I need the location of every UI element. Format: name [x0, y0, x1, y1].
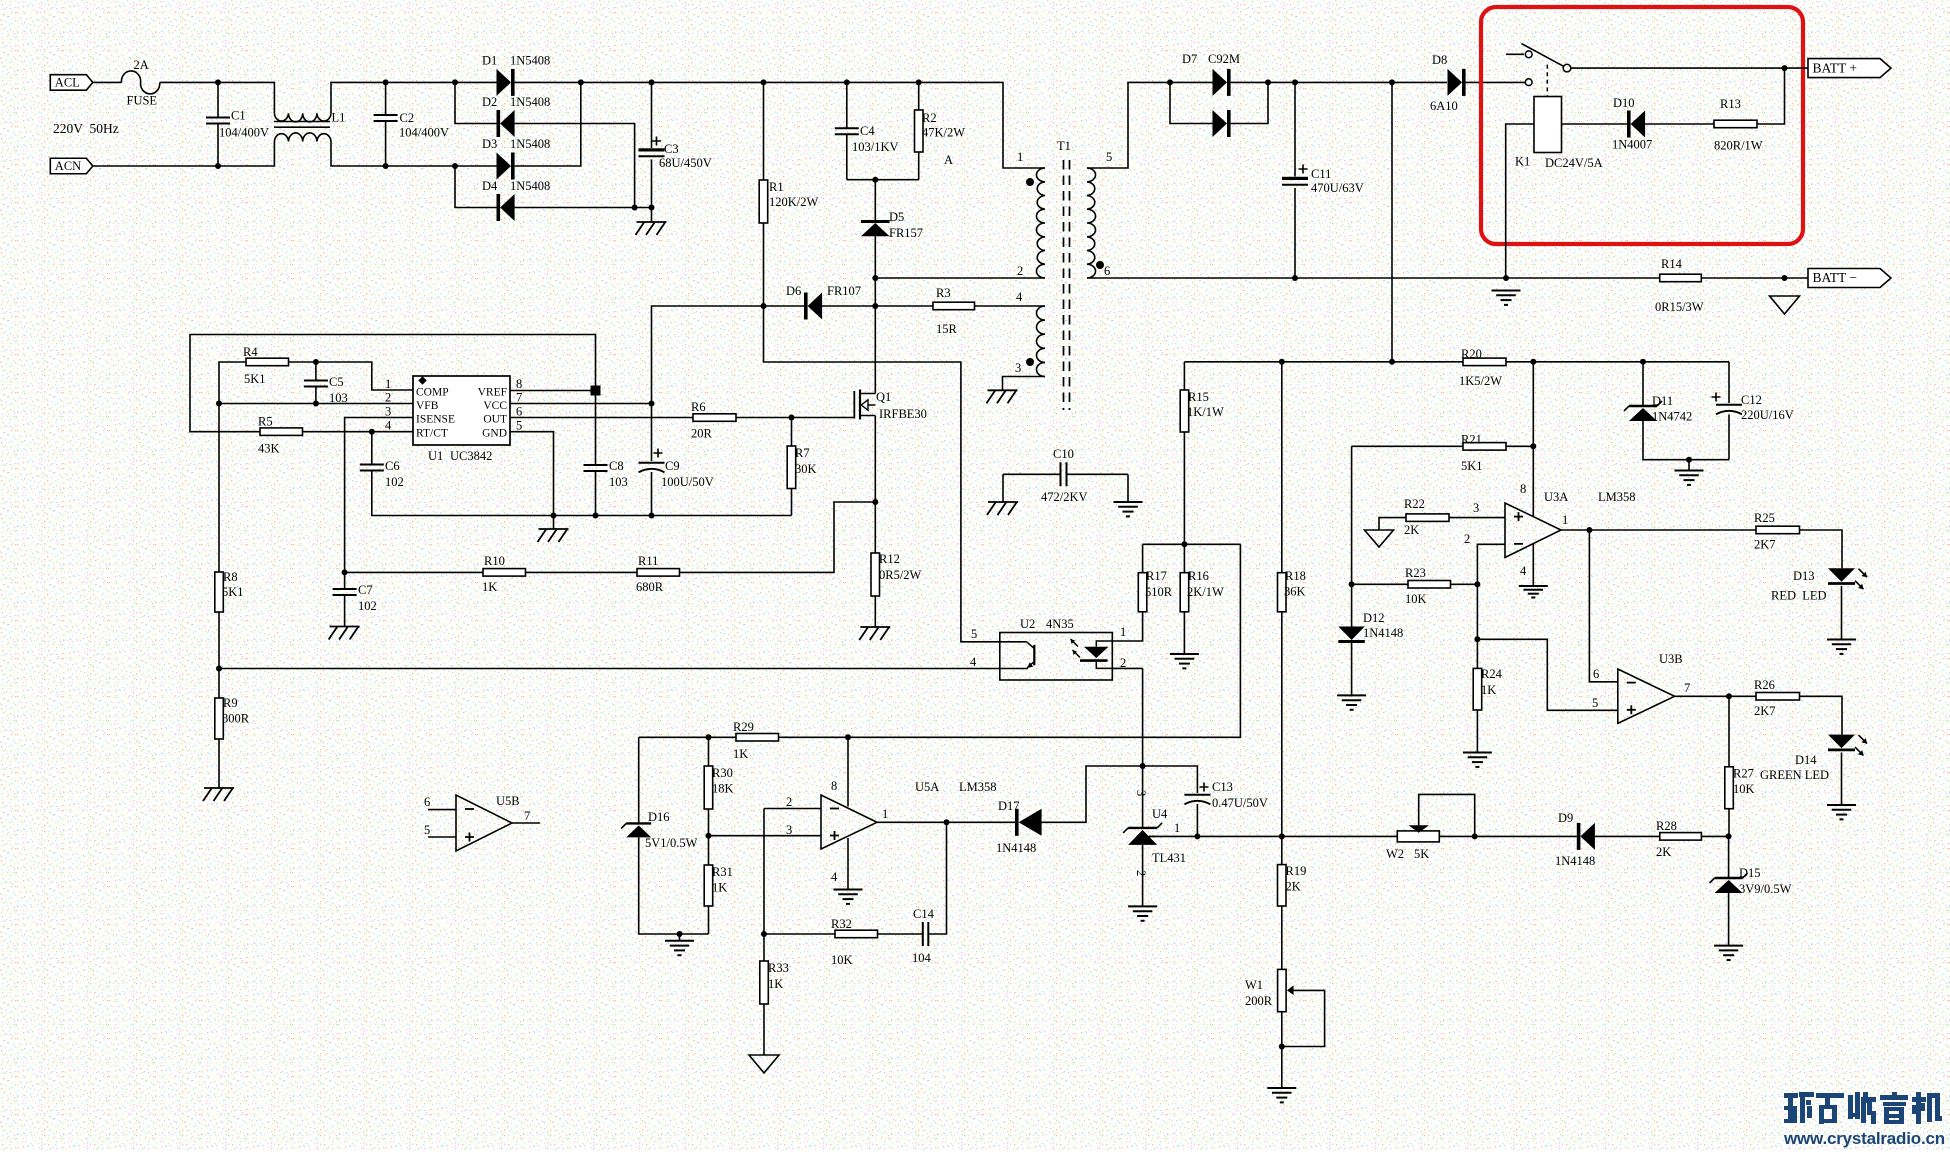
wire pin4 U5A lead	[847, 838, 849, 890]
capacitor C4	[835, 128, 859, 134]
junction C4 top	[844, 79, 850, 85]
svg-text:6: 6	[1104, 264, 1110, 278]
svg-text:6: 6	[424, 795, 430, 809]
svg-text:ACN: ACN	[55, 159, 81, 173]
wire C5 bottom lead	[315, 387, 317, 404]
junction W1 bottom	[1279, 1044, 1285, 1050]
svg-text:2: 2	[786, 795, 792, 809]
svg-text:104: 104	[912, 951, 932, 965]
svg-text:C11: C11	[1311, 167, 1331, 181]
junction R2 top	[916, 79, 922, 85]
wire R16 top lead	[1183, 544, 1185, 572]
wire R13 to BATT+ node	[1757, 68, 1785, 124]
svg-text:2K: 2K	[1286, 880, 1301, 894]
svg-text:D13: D13	[1793, 569, 1815, 583]
inductor L1 top winding	[274, 113, 331, 122]
resistor R26 2K7	[1756, 693, 1800, 701]
wire pin5 GND	[510, 432, 554, 516]
svg-text:3: 3	[1134, 790, 1148, 796]
potentiometer W2 5K body	[1397, 831, 1439, 842]
svg-text:1K: 1K	[712, 881, 727, 895]
wire D15 bottom lead	[1728, 893, 1730, 946]
svg-text:R23: R23	[1405, 566, 1426, 580]
resistor R29 1K	[736, 734, 779, 742]
wire R25 to D13	[1800, 530, 1843, 568]
junction ground rail	[1503, 275, 1509, 281]
svg-text:2K: 2K	[1656, 845, 1671, 859]
junction R18 R19 node	[1279, 833, 1285, 839]
svg-text:4N35: 4N35	[1046, 617, 1074, 631]
svg-text:4: 4	[1016, 290, 1023, 304]
wire pin5 U5B stub	[428, 836, 456, 838]
svg-text:200R: 200R	[1245, 994, 1273, 1008]
wire C6 top lead	[371, 432, 373, 464]
capacitor C11 electrolytic	[1282, 177, 1308, 180]
wire C4 R2 bottom link	[847, 179, 919, 181]
svg-text:C92M: C92M	[1208, 52, 1240, 66]
resistor R11 680R	[637, 569, 680, 577]
wire D4 anode to ground rail	[515, 207, 652, 209]
junction pin2 drain	[872, 275, 878, 281]
junction D3 cathode rail	[578, 79, 584, 85]
svg-text:GND: GND	[482, 428, 507, 440]
wire C2 upper lead	[385, 82, 387, 114]
wire U4 ref lead	[1149, 835, 1155, 837]
wire U3B output	[1675, 695, 1756, 697]
svg-text:510R: 510R	[1145, 585, 1173, 599]
transformer T1 core	[1064, 160, 1070, 410]
junction C2 bottom	[383, 163, 389, 169]
wire C4 lower lead	[846, 135, 848, 180]
resistor R16 2K/1W	[1180, 573, 1189, 612]
op-amp U5B	[456, 795, 512, 851]
svg-text:R10: R10	[484, 554, 505, 568]
wire R6 to gate	[736, 391, 854, 418]
svg-text:R31: R31	[712, 865, 733, 879]
svg-text:VFB: VFB	[416, 400, 439, 412]
diode D7a C92M	[1213, 69, 1228, 96]
svg-text:R22: R22	[1404, 497, 1425, 511]
plus sign C11	[1299, 165, 1308, 174]
resistor R28 2K	[1660, 833, 1702, 841]
wire D14 cathode lead	[1841, 753, 1843, 806]
wire to U3B pin5	[1477, 639, 1617, 710]
svg-text:RED LED: RED LED	[1771, 589, 1827, 603]
svg-text:R13: R13	[1720, 97, 1741, 111]
wire secondary pin6 rail	[1087, 277, 1506, 279]
junction R21 vert top	[1530, 359, 1536, 365]
wire R29 right	[779, 736, 849, 738]
svg-text:U4: U4	[1152, 807, 1168, 821]
wire R2 lower lead	[918, 152, 920, 180]
svg-text:4: 4	[385, 419, 392, 433]
relay contact NO circle	[1525, 51, 1532, 58]
capacitor C14 104	[923, 922, 929, 946]
wire ground stub	[1688, 460, 1690, 471]
svg-text:4: 4	[831, 870, 838, 884]
wire R3 to pin4	[975, 305, 1046, 307]
wire D6 node to VCC	[652, 306, 764, 404]
svg-text:U3B: U3B	[1659, 652, 1683, 666]
terminal ACL	[50, 75, 93, 91]
capacitor C7	[333, 589, 357, 595]
svg-text:3: 3	[1015, 361, 1021, 375]
svg-text:5: 5	[424, 823, 430, 837]
wire L1 bottom to bridge	[331, 142, 497, 167]
wire D8 node down to R20	[1391, 82, 1393, 361]
ground R12	[860, 626, 890, 628]
wire C13 bottom lead	[1196, 804, 1198, 836]
wire D11 top lead	[1642, 362, 1644, 406]
diode D6 FR107	[808, 293, 823, 320]
svg-text:C7: C7	[358, 583, 373, 597]
junction bridge bottom left	[452, 163, 458, 169]
wire opto pin2 out	[1112, 667, 1142, 669]
svg-text:1: 1	[1017, 150, 1023, 164]
svg-text:1N4742: 1N4742	[1652, 410, 1692, 424]
transistor Q1 IRFBE30	[853, 391, 855, 419]
wire opto pin4 long rail	[219, 668, 1028, 670]
wire U4 cathode lead	[1142, 766, 1144, 827]
junction D7 left	[1167, 79, 1173, 85]
svg-text:R29: R29	[733, 720, 754, 734]
wire aux pin3 to ground	[1003, 377, 1046, 391]
wire VREF loop	[190, 335, 596, 432]
wire R1 upper lead	[763, 82, 765, 180]
plus sign C12	[1712, 393, 1721, 402]
junction pin2 R23 node	[1474, 581, 1480, 587]
op-amp U5A LM358	[821, 795, 877, 849]
wire W2 wiper link	[1419, 794, 1475, 836]
svg-text:C6: C6	[385, 459, 400, 473]
wire C10 right ground lead	[1127, 474, 1129, 502]
wire R12 top lead	[874, 502, 876, 553]
wire primary bottom to drain	[875, 277, 1045, 279]
wire pin4 vert	[1532, 544, 1534, 585]
svg-text:1N5408: 1N5408	[510, 179, 550, 193]
svg-text:1K: 1K	[482, 580, 497, 594]
wire aux supply to opto pin5	[764, 306, 1027, 642]
wire D7 bottom branch	[1170, 82, 1213, 123]
svg-text:1N5408: 1N5408	[510, 54, 550, 68]
svg-text:K1: K1	[1515, 155, 1530, 169]
wire Q1 source down	[874, 416, 876, 503]
wire U3A output	[1561, 529, 1756, 531]
svg-text:TL431: TL431	[1152, 851, 1186, 865]
svg-text:U3A: U3A	[1544, 490, 1568, 504]
svg-text:R19: R19	[1286, 864, 1307, 878]
svg-text:R3: R3	[936, 286, 951, 300]
diode D3 1N5408	[497, 153, 512, 180]
svg-text:R8: R8	[223, 570, 238, 584]
junction R21 R23 D12	[1349, 581, 1355, 587]
capacitor C8	[584, 465, 608, 471]
svg-text:R15: R15	[1188, 390, 1209, 404]
resistor R12 0R5/2W	[871, 553, 880, 596]
wire C14 to output	[929, 822, 947, 934]
plus sign C9	[654, 449, 663, 458]
svg-text:0.47U/50V: 0.47U/50V	[1212, 796, 1268, 810]
wire D6 to R3 node	[822, 305, 875, 307]
svg-text:D3: D3	[482, 137, 497, 151]
svg-text:2: 2	[1464, 532, 1470, 546]
ground U5A pin4	[834, 889, 863, 891]
resistor R27 10K	[1725, 767, 1734, 809]
junction pin3 U5A node	[706, 833, 712, 839]
wire R14 to BATT-	[1701, 277, 1808, 279]
potentiometer W1 200R body	[1278, 969, 1287, 1011]
wire header to R29 row	[848, 544, 1240, 737]
junction VFB C5	[313, 401, 319, 407]
svg-text:R28: R28	[1656, 819, 1677, 833]
svg-text:LM358: LM358	[1598, 490, 1636, 504]
phototransistor U2	[1033, 645, 1035, 665]
svg-text:472/2KV: 472/2KV	[1041, 490, 1088, 504]
svg-text:7: 7	[516, 391, 522, 405]
wire R15 top lead	[1183, 362, 1185, 390]
resistor R4 5K1	[246, 358, 289, 366]
svg-text:C10: C10	[1053, 447, 1074, 461]
wire D7 to D8	[1268, 81, 1447, 83]
wire R15 bottom lead	[1183, 432, 1185, 544]
svg-text:2K7: 2K7	[1754, 538, 1776, 552]
junction C11 top	[1292, 79, 1298, 85]
wire pin3 ISENSE	[345, 418, 413, 573]
junction VCC C9	[649, 401, 655, 407]
wire C6 bottom lead	[372, 471, 554, 516]
wire R16 bottom lead	[1183, 612, 1185, 654]
svg-text:R7: R7	[795, 446, 810, 460]
capacitor C2	[374, 115, 398, 121]
svg-text:R16: R16	[1188, 569, 1209, 583]
zener D15 3V9/0.5W	[1715, 877, 1743, 879]
wire D7 top anode	[1170, 81, 1213, 83]
phase dot secondary	[1096, 261, 1104, 269]
svg-text:100U/50V: 100U/50V	[661, 475, 714, 489]
svg-text:5: 5	[1592, 696, 1598, 710]
junction C1 bottom	[215, 163, 221, 169]
junction C6 RT/CT	[369, 429, 375, 435]
svg-text:1K5/2W: 1K5/2W	[1459, 374, 1502, 388]
wire R5 to pin4	[303, 431, 414, 433]
svg-text:7: 7	[524, 809, 530, 823]
inductor L1 bottom winding	[274, 133, 331, 142]
junction D8 node	[1389, 79, 1395, 85]
wire fuse to L1 top	[160, 82, 275, 113]
svg-text:GREEN LED: GREEN LED	[1760, 768, 1829, 782]
wire R18 top lead	[1281, 362, 1283, 573]
junction C11 bottom	[1292, 275, 1298, 281]
svg-text:D11: D11	[1652, 394, 1673, 408]
capacitor C1	[206, 118, 230, 124]
watermark char shou	[1848, 1092, 1876, 1124]
wire pin6 vert	[1589, 530, 1617, 682]
svg-text:1N4148: 1N4148	[1555, 854, 1595, 868]
potentiometer W2 wiper	[1409, 825, 1430, 833]
svg-text:R17: R17	[1146, 569, 1167, 583]
svg-text:FR107: FR107	[827, 284, 861, 298]
wire R18 bottom lead	[1281, 612, 1283, 837]
svg-text:8: 8	[831, 779, 837, 793]
wire R19 top lead	[1281, 836, 1283, 864]
wire D12 bottom lead	[1351, 643, 1353, 695]
wire C7 bottom lead	[344, 596, 346, 627]
svg-text:680R: 680R	[636, 580, 664, 594]
wire R12 bottom lead	[874, 596, 876, 627]
resistor R9 300R	[215, 698, 224, 739]
svg-text:103: 103	[609, 475, 628, 489]
optocoupler U2 4N35 box	[1000, 633, 1113, 681]
junction C9 bottom	[649, 513, 655, 519]
wire R31 top lead	[708, 836, 710, 865]
svg-text:6: 6	[516, 405, 522, 419]
phase dot aux	[1026, 358, 1034, 366]
wire C4 upper lead	[846, 82, 848, 128]
wire R21 row	[1352, 445, 1463, 447]
LED D14 green	[1828, 735, 1855, 749]
svg-text:R12: R12	[879, 552, 900, 566]
resistor R14 0R15/3W	[1660, 274, 1702, 282]
wire C9 top lead	[651, 404, 653, 462]
ground BATT- triangle	[1770, 296, 1800, 314]
wire R30 bottom lead	[708, 809, 710, 836]
wire opto pin1 to R17	[1112, 612, 1142, 641]
opto LED U2	[1084, 647, 1109, 658]
wire R8 bottom lead	[218, 612, 220, 698]
wire pin6 OUT	[510, 417, 693, 419]
svg-text:1: 1	[882, 807, 888, 821]
junction R20 D8 node	[1389, 359, 1395, 365]
wire C12 bottom lead	[1728, 415, 1730, 460]
svg-text:D9: D9	[1558, 811, 1573, 825]
svg-text:D14: D14	[1795, 753, 1817, 767]
wire R24 node link	[1476, 584, 1478, 639]
resistor R18 36K	[1278, 573, 1287, 612]
wire R32 left	[764, 933, 835, 935]
wire gnd stub U1	[553, 516, 555, 530]
svg-text:D7: D7	[1182, 52, 1197, 66]
svg-text:FUSE: FUSE	[127, 94, 158, 108]
junction D7 right	[1265, 79, 1271, 85]
svg-text:ISENSE: ISENSE	[416, 414, 455, 426]
svg-text:D2: D2	[482, 95, 497, 109]
wire R19 to W1	[1281, 906, 1283, 969]
wire W2 to D9	[1439, 835, 1577, 837]
svg-text:ACL: ACL	[55, 76, 80, 90]
resistor R1 120K/2W	[759, 180, 768, 223]
svg-text:UC3842: UC3842	[450, 449, 492, 463]
resistor R32 10K	[835, 930, 878, 938]
svg-text:4: 4	[970, 655, 977, 669]
wire C1 upper lead	[217, 82, 219, 117]
svg-text:1N4148: 1N4148	[996, 841, 1036, 855]
svg-text:R6: R6	[691, 400, 706, 414]
svg-text:BATT +: BATT +	[1813, 60, 1858, 75]
transformer T1 aux winding	[1037, 306, 1046, 377]
svg-text:D12: D12	[1363, 611, 1385, 625]
ground W1	[1267, 1087, 1296, 1089]
junction output to pin6	[1586, 527, 1592, 533]
svg-text:C14: C14	[913, 907, 935, 921]
wire relay coil left	[1506, 124, 1534, 278]
wire C8 bottom lead	[595, 472, 597, 516]
watermark char yin	[1880, 1092, 1908, 1124]
capacitor C10 472/2KV	[1061, 462, 1067, 486]
wire C1 lower lead	[217, 124, 219, 166]
svg-text:1N5408: 1N5408	[510, 95, 550, 109]
wire R24 bottom lead	[1476, 710, 1478, 753]
svg-text:6A10: 6A10	[1430, 99, 1458, 113]
svg-text:1N5408: 1N5408	[510, 137, 550, 151]
diode D10 1N4007	[1631, 111, 1646, 138]
svg-text:2A: 2A	[134, 58, 149, 72]
svg-text:47K/2W: 47K/2W	[922, 126, 965, 140]
wire D3 cathode to top rail	[515, 82, 581, 166]
wire pin7 U5B stub	[512, 822, 540, 824]
svg-text:LM358: LM358	[959, 780, 997, 794]
ground R16	[1170, 653, 1199, 655]
wire rail to R14	[1506, 277, 1660, 279]
wire R17 top lead	[1142, 544, 1144, 572]
junction R8 R9 opto	[216, 666, 222, 672]
svg-text:A: A	[944, 153, 953, 167]
junction C2 top	[383, 79, 389, 85]
wire R7 top lead	[791, 418, 793, 447]
wire pin2 down to R32	[763, 809, 765, 962]
junction R27 top node	[1726, 693, 1732, 699]
wire top rail to transformer	[652, 82, 1041, 168]
zener D16 5V1/0.5W	[626, 822, 651, 824]
resistor R25 2K7	[1756, 526, 1800, 534]
wire C11 lower lead	[1294, 188, 1296, 278]
svg-text:0R15/3W: 0R15/3W	[1655, 300, 1704, 314]
svg-text:R24: R24	[1481, 667, 1503, 681]
watermark char ji	[1912, 1092, 1942, 1124]
resistor R30 18K	[704, 766, 713, 809]
svg-text:5K1: 5K1	[222, 585, 244, 599]
wire R29 left	[709, 736, 737, 738]
ground U4	[1128, 905, 1157, 907]
ground secondary rail	[1492, 290, 1521, 292]
relay common circle	[1563, 64, 1571, 72]
wire relay coil right	[1562, 123, 1628, 125]
wire R3 left lead	[875, 305, 933, 307]
diode D9 1N4148	[1580, 823, 1595, 850]
junction VFB R4	[216, 401, 222, 407]
wire R10 R11 link	[526, 571, 638, 573]
junction R1 top	[761, 79, 767, 85]
svg-text:102: 102	[358, 599, 377, 613]
wire pin8 vert	[1532, 362, 1534, 517]
svg-text:C2: C2	[400, 111, 415, 125]
junction D4 rail	[632, 205, 638, 211]
svg-text:104/400V: 104/400V	[399, 126, 449, 140]
wire to D2 cathode	[455, 82, 497, 123]
wire R20 right	[1506, 361, 1729, 363]
junction D11 top	[1640, 359, 1646, 365]
wire R33 bottom lead	[763, 1004, 765, 1055]
op-amp U3B LM358	[1618, 669, 1675, 723]
wire R22 to pin3	[1449, 517, 1505, 519]
svg-text:1K: 1K	[768, 977, 783, 991]
wire D16 top	[639, 736, 709, 738]
resistor R33 1K	[760, 961, 769, 1004]
wire D8 to relay contact	[1466, 81, 1525, 83]
svg-text:15R: 15R	[936, 322, 958, 336]
svg-text:www.crystalradio.cn: www.crystalradio.cn	[1783, 1129, 1945, 1148]
watermark char shi	[1816, 1093, 1844, 1124]
svg-text:VCC: VCC	[483, 400, 507, 412]
